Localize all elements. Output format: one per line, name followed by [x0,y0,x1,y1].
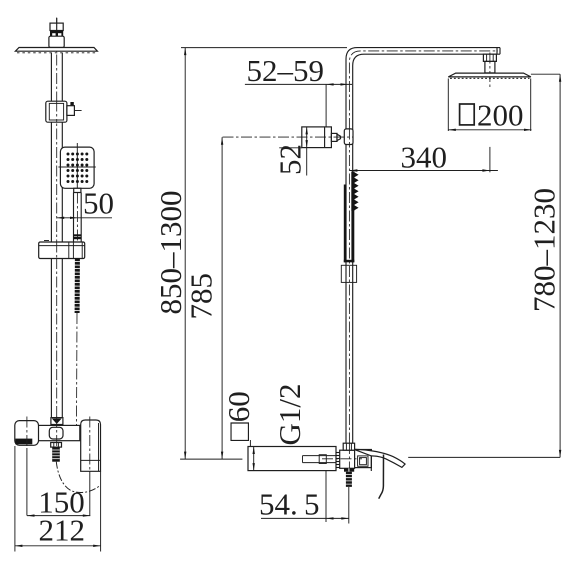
node: pipe-to-mixer connector [50,418,52,426]
wire: mixer centerline [322,458,362,460]
svg-text:52–59: 52–59 [247,53,325,88]
svg-text:□60: □60 [221,391,256,441]
wire: hose centerline below [348,487,350,524]
wire: hose centerline to mixer [76,313,79,425]
node: hose coil (front) [346,472,352,487]
svg-text:340: 340 [401,140,448,175]
dimension 52 [273,127,308,176]
dimension 780-1230 [527,74,562,457]
node: slider bracket [46,101,82,122]
svg-text:200: 200 [477,98,524,133]
node: shower hose coil [75,259,80,314]
dimension 785 [184,137,224,459]
wire: centerline overlays [56,18,58,31]
node: mixer body (side) [248,447,336,471]
svg-text:54. 5: 54. 5 [259,487,319,522]
dimension 850-1300 [153,48,347,460]
node: head connector [49,36,64,47]
wire: spout-to-dim extension [408,456,560,458]
svg-text:785: 785 [184,273,219,320]
node: overhead shower plate (side) [15,48,97,53]
wire: bottom reference line [180,458,242,460]
dimension 50 [57,186,114,221]
node: handle neck [74,188,81,192]
node: handshower handle [73,193,81,242]
node: mixer body bar (side) [32,425,80,440]
svg-text:212: 212 [39,513,86,548]
node: mixer left handle [15,421,39,446]
svg-text:50: 50 [83,186,114,221]
node: arm drop tube [485,61,495,73]
node: handshower handle (front) [344,185,355,263]
node: handshower head (side) [58,143,95,193]
node: threaded hose connector [52,447,60,462]
wire: head centerline [489,53,491,89]
wire: hanging hose hook [379,455,384,499]
wire: hanging hose curve [56,462,99,493]
wire: riser pipe with top bend [346,48,500,444]
node: wall holder [39,241,85,259]
svg-text:G1/2: G1/2 [272,384,307,446]
node: top cap [50,23,63,36]
node: mixer right handle [81,420,101,471]
dimension square-60 [221,391,256,470]
wire: plate-to-dim extension [531,73,560,75]
wire: column pipe edges [50,53,52,418]
dimension square-200 [448,79,531,133]
node: overhead shower plate (front) [448,73,531,78]
node: top hex nut [343,443,354,450]
dimension 340 [350,140,498,175]
svg-text:52: 52 [273,144,308,175]
node: wall union valve [302,127,353,148]
node: arm nut [483,54,496,61]
node: mixer center knob [49,427,63,439]
node: spray dots grid [67,153,89,184]
node: spout [355,449,406,471]
node: thread between body and block [336,453,340,468]
node: mixer connection block [340,450,355,468]
node: lower nut [51,443,62,448]
node: holder bracket (front) [341,265,356,282]
dimension 150 [27,448,90,520]
node: handshower spray teeth (front) [351,172,358,212]
svg-text:780–1230: 780–1230 [527,188,562,312]
dimension 52-59 [245,53,352,128]
dimension 54.5 [259,471,349,522]
wire: valve centerline [223,136,354,138]
wire: column centerline [56,18,58,447]
node: bottom nut [344,468,354,471]
dimension 212 [15,446,101,552]
